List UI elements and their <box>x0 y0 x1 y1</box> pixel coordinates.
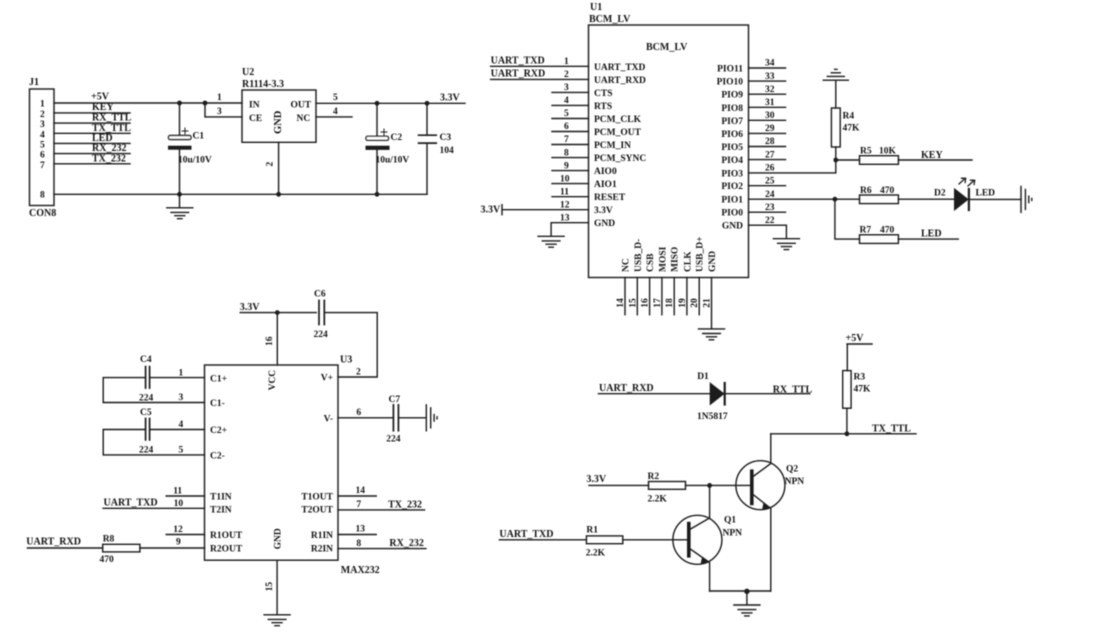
svg-text:PIO0: PIO0 <box>721 209 743 219</box>
resistor R5 10K <box>836 147 899 165</box>
svg-text:GND: GND <box>594 219 615 229</box>
svg-text:C5: C5 <box>140 408 152 418</box>
wire C6 to V+ (U3 pin 2) <box>324 313 377 377</box>
connector J1 CON8 <box>29 77 56 219</box>
svg-text:Q1: Q1 <box>724 516 736 526</box>
svg-text:4: 4 <box>179 420 184 430</box>
resistor R7 470 <box>860 226 899 244</box>
wire +5V to R3 <box>847 344 872 371</box>
svg-text:IN: IN <box>249 101 260 111</box>
svg-text:UART_TXD: UART_TXD <box>594 63 646 73</box>
svg-text:14: 14 <box>356 486 366 496</box>
svg-text:6: 6 <box>40 151 45 161</box>
svg-text:UART_RXD: UART_RXD <box>26 536 81 547</box>
U1 pin 17 stub <box>653 278 663 315</box>
svg-text:34: 34 <box>765 59 775 69</box>
svg-text:TX_232: TX_232 <box>388 500 422 511</box>
U1 pin 23 stub <box>749 203 786 213</box>
svg-text:21: 21 <box>703 298 713 308</box>
svg-text:2.2K: 2.2K <box>586 549 606 559</box>
wire V- to C7 (U3 pin 6) <box>338 417 393 419</box>
svg-text:10K: 10K <box>879 147 897 157</box>
svg-text:7: 7 <box>356 500 361 510</box>
svg-text:3.3V: 3.3V <box>594 206 613 216</box>
svg-text:224: 224 <box>139 445 154 455</box>
wire D2 to ground <box>969 198 1021 200</box>
svg-text:C2+: C2+ <box>210 426 227 436</box>
wire D1 to RX_TTL <box>725 393 810 395</box>
svg-text:R2: R2 <box>648 472 660 482</box>
svg-text:PCM_OUT: PCM_OUT <box>594 128 642 138</box>
svg-text:NPN: NPN <box>785 477 805 487</box>
U1 pin 4 stub <box>552 96 589 106</box>
svg-text:23: 23 <box>765 203 775 213</box>
svg-text:NPN: NPN <box>723 529 743 539</box>
svg-text:V-: V- <box>324 414 333 424</box>
svg-text:+5V: +5V <box>91 92 110 103</box>
svg-text:T1IN: T1IN <box>210 493 232 503</box>
wire ground rail (J1 pin8 to C3) <box>54 193 427 195</box>
capacitor C5 224 with loop to pins 4,5 <box>103 408 204 456</box>
svg-text:UART_RXD: UART_RXD <box>594 76 646 86</box>
svg-text:104: 104 <box>440 146 455 156</box>
svg-text:LED: LED <box>976 188 996 198</box>
svg-text:C3: C3 <box>440 133 452 143</box>
U3 pin 14 T1OUT stub <box>338 486 376 496</box>
wire UART_TXD to R1 <box>499 539 586 541</box>
wire LED (J1 pin5) <box>54 142 130 144</box>
U1 pin 6 stub <box>552 122 589 132</box>
svg-text:3: 3 <box>217 107 222 117</box>
svg-text:PCM_CLK: PCM_CLK <box>594 115 642 125</box>
U1 pin 10 stub <box>552 174 589 184</box>
svg-text:PCM_IN: PCM_IN <box>594 141 631 151</box>
svg-text:4: 4 <box>564 96 569 106</box>
svg-text:R7: R7 <box>860 226 872 236</box>
wire 3.3V out (U2 pin 5) <box>316 102 465 104</box>
svg-text:3: 3 <box>179 393 184 403</box>
wire R8 to R2OUT (U3 pin 9) <box>140 538 205 548</box>
svg-text:3.3V: 3.3V <box>440 93 461 104</box>
svg-text:R2IN: R2IN <box>311 545 333 555</box>
IC U3 MAX232 <box>205 355 380 577</box>
svg-text:8: 8 <box>356 539 361 549</box>
svg-text:10: 10 <box>174 499 184 509</box>
ground (U3 pin 15) <box>264 615 290 626</box>
svg-text:18: 18 <box>665 298 675 308</box>
ground (sideways, C7) <box>426 405 437 431</box>
U1 pin 25 stub <box>749 176 786 186</box>
wire U1 pin 13 GND <box>551 213 588 235</box>
ground (transistor rail) <box>734 605 760 616</box>
svg-text:R3: R3 <box>854 373 866 383</box>
U1 pin 5 stub <box>552 109 589 119</box>
junction rail / C1 <box>177 192 182 197</box>
junction rail/ground <box>744 589 749 594</box>
transistor Q2 NPN <box>736 434 804 591</box>
svg-text:R1IN: R1IN <box>311 531 333 541</box>
U1 pin 33 stub <box>749 72 786 82</box>
U1 pin 11 stub <box>552 187 589 197</box>
svg-text:BCM_LV: BCM_LV <box>589 14 631 25</box>
svg-text:2: 2 <box>40 110 45 120</box>
regulator U2 R1114-3.3 <box>242 67 316 142</box>
U1 pin 30 stub <box>749 111 786 121</box>
wire KEY out <box>898 159 972 161</box>
svg-text:9: 9 <box>564 161 569 171</box>
svg-text:C1: C1 <box>193 132 205 142</box>
svg-text:C1+: C1+ <box>210 374 227 384</box>
wire TX_232 (J1 pin7) <box>54 163 130 165</box>
svg-text:33: 33 <box>765 72 775 82</box>
svg-text:GND: GND <box>273 110 284 134</box>
svg-text:V+: V+ <box>321 374 333 384</box>
svg-text:T2OUT: T2OUT <box>301 506 333 516</box>
svg-text:PIO3: PIO3 <box>721 169 743 179</box>
svg-text:NC: NC <box>622 258 632 272</box>
svg-text:47K: 47K <box>854 385 872 395</box>
junction 3.3V / C2 <box>375 101 380 106</box>
svg-text:PIO4: PIO4 <box>721 156 743 166</box>
svg-text:PIO1: PIO1 <box>721 196 743 206</box>
svg-text:7: 7 <box>40 161 45 171</box>
svg-text:C4: C4 <box>140 355 152 365</box>
ground (U1 pin 21) <box>699 329 725 340</box>
svg-text:PIO10: PIO10 <box>717 78 744 88</box>
resistor R1 2.2K <box>586 526 623 559</box>
svg-text:1: 1 <box>40 100 45 110</box>
resistor R4 47K <box>831 108 860 160</box>
svg-text:C1-: C1- <box>210 399 225 409</box>
svg-text:10u/10V: 10u/10V <box>178 156 212 166</box>
junction node KEY (R4/R5/PIO3) <box>833 158 838 163</box>
svg-text:3: 3 <box>564 83 569 93</box>
svg-text:3: 3 <box>40 120 45 130</box>
svg-text:12: 12 <box>173 525 183 535</box>
wire emitter rail <box>710 590 771 592</box>
U1 pin 31 stub <box>749 98 786 108</box>
wire PIO3 to KEY junction (pin 26) <box>749 160 836 174</box>
svg-text:25: 25 <box>765 176 775 186</box>
svg-text:4: 4 <box>40 130 45 140</box>
svg-text:T2IN: T2IN <box>210 506 232 516</box>
svg-text:R1OUT: R1OUT <box>210 531 243 541</box>
wire TX_TTL (J1 pin4) <box>54 132 130 134</box>
svg-text:TX_TTL: TX_TTL <box>872 423 911 434</box>
capacitor C1 10u/10V <box>168 103 212 194</box>
U1 pin 3 stub <box>552 83 589 93</box>
diode D2 LED <box>934 178 995 210</box>
wire U1 pin 22 GND <box>749 216 787 238</box>
wire CE branch (pin 3) <box>205 103 242 117</box>
junction TX_TTL node <box>845 431 850 436</box>
svg-text:+5V: +5V <box>846 333 865 344</box>
svg-text:KEY: KEY <box>921 150 943 161</box>
svg-text:470: 470 <box>880 226 895 236</box>
svg-text:J1: J1 <box>29 77 39 88</box>
svg-text:15: 15 <box>265 582 275 592</box>
svg-text:Q2: Q2 <box>786 465 798 475</box>
junction R2/Q1 collector <box>707 483 712 488</box>
junction U2 GND / rail <box>276 192 281 197</box>
svg-text:CE: CE <box>249 114 262 124</box>
svg-text:26: 26 <box>765 164 775 174</box>
diode D1 1N5817 <box>697 372 728 422</box>
svg-text:22: 22 <box>765 216 775 226</box>
wire LED out <box>898 238 958 240</box>
svg-text:5: 5 <box>179 446 184 456</box>
svg-text:29: 29 <box>765 124 775 134</box>
ground (inverted, above R4) <box>823 69 848 108</box>
svg-text:3.3V: 3.3V <box>586 474 607 485</box>
svg-text:PIO11: PIO11 <box>717 65 743 75</box>
U1 pin 29 stub <box>749 124 786 134</box>
svg-text:470: 470 <box>100 555 115 565</box>
svg-text:CLK: CLK <box>683 251 693 272</box>
svg-text:1: 1 <box>217 93 222 103</box>
svg-text:BCM_LV: BCM_LV <box>646 42 688 53</box>
junction +5V / C1 <box>177 101 182 106</box>
svg-text:D1: D1 <box>697 372 709 382</box>
junction 3.3V / C3 <box>425 101 430 106</box>
capacitor C2 10u/10V <box>366 103 410 194</box>
junction node LED (R6/R7/PIO1) <box>833 197 838 202</box>
svg-text:47K: 47K <box>843 124 861 134</box>
transistor Q1 NPN <box>673 515 742 591</box>
svg-text:OUT: OUT <box>291 101 312 111</box>
svg-text:R8: R8 <box>103 535 115 545</box>
svg-text:UART_TXD: UART_TXD <box>104 498 158 509</box>
svg-text:1N5817: 1N5817 <box>697 412 728 422</box>
svg-text:8: 8 <box>40 190 45 200</box>
U1 pin 14 stub <box>616 278 626 315</box>
svg-text:470: 470 <box>880 186 895 196</box>
wire R1 to Q1 base <box>623 539 689 541</box>
wire UART_TXD to T2IN (U3 pin 10) <box>103 499 204 509</box>
wire UART_RXD (U1 pin 2) <box>491 78 589 80</box>
U3 pin 12 R1OUT stub <box>166 525 204 535</box>
wire UART_RXD to D1 <box>598 393 710 395</box>
U1 pin 34 stub <box>749 59 786 69</box>
svg-text:USB_D+: USB_D+ <box>696 236 706 272</box>
svg-text:MISO: MISO <box>671 247 681 272</box>
svg-text:14: 14 <box>616 298 626 308</box>
svg-text:C7: C7 <box>389 395 401 405</box>
svg-text:15: 15 <box>628 298 638 308</box>
U1 pin 16 stub <box>641 278 651 315</box>
IC U1 BCM_LV <box>589 2 749 278</box>
capacitor C7 224 <box>386 395 401 445</box>
capacitor C4 224 with loop to pins 1,3 <box>103 355 204 404</box>
wire C7 to ground <box>398 417 426 419</box>
U1 pin 7 stub <box>552 135 589 145</box>
wire PIO1 to LED junction (pin 24) <box>749 190 835 200</box>
ground (C1 rail) <box>167 194 193 218</box>
svg-text:GND: GND <box>708 251 718 272</box>
junction +5V / CE branch <box>203 101 208 106</box>
svg-text:11: 11 <box>560 187 569 197</box>
svg-text:LED: LED <box>921 229 942 240</box>
svg-text:GND: GND <box>722 222 743 232</box>
svg-text:AIO0: AIO0 <box>594 167 617 177</box>
svg-text:5: 5 <box>40 141 45 151</box>
svg-text:PIO7: PIO7 <box>721 117 743 127</box>
svg-text:32: 32 <box>765 85 775 95</box>
svg-text:R4: R4 <box>843 112 855 122</box>
junction rail / C2 <box>375 192 380 197</box>
svg-text:30: 30 <box>765 111 775 121</box>
wire U1 pin 21 GND <box>703 278 713 329</box>
svg-text:PIO9: PIO9 <box>721 91 743 101</box>
svg-text:4: 4 <box>333 107 338 117</box>
svg-text:1: 1 <box>179 368 184 378</box>
U1 pin 18 stub <box>665 278 675 315</box>
wire UART_RXD to R8 <box>27 547 102 549</box>
wire R2 to Q2 base <box>686 484 750 486</box>
svg-text:12: 12 <box>560 200 570 210</box>
svg-text:MAX232: MAX232 <box>341 565 380 576</box>
svg-text:1: 1 <box>564 57 569 67</box>
svg-text:5: 5 <box>333 93 338 103</box>
svg-text:C2: C2 <box>391 133 403 143</box>
svg-text:R5: R5 <box>860 147 872 157</box>
svg-text:20: 20 <box>690 298 700 308</box>
capacitor C3 104 <box>419 103 454 194</box>
wire VCC (U3 pin 16) <box>276 313 278 365</box>
wire U2 GND (pin 2) <box>278 142 280 194</box>
wire rail to ground <box>746 591 748 604</box>
svg-text:MOSI: MOSI <box>658 246 668 272</box>
svg-text:3.3V: 3.3V <box>240 302 261 313</box>
svg-text:13: 13 <box>560 213 570 223</box>
ground (U1 pin 22) <box>773 239 799 250</box>
svg-text:6: 6 <box>356 408 361 418</box>
svg-text:UART_TXD: UART_TXD <box>491 55 545 66</box>
svg-text:RTS: RTS <box>594 102 612 112</box>
junction VCC node <box>275 310 280 315</box>
U1 pin 20 stub <box>690 278 700 315</box>
wire 3.3V to R2 <box>589 484 649 486</box>
svg-text:CTS: CTS <box>594 89 612 99</box>
svg-text:7: 7 <box>564 135 569 145</box>
svg-text:31: 31 <box>765 98 775 108</box>
U1 pin 27 stub <box>749 150 786 160</box>
svg-text:224: 224 <box>139 393 154 403</box>
svg-text:R1114-3.3: R1114-3.3 <box>242 79 284 90</box>
svg-text:UART_RXD: UART_RXD <box>599 383 654 394</box>
svg-text:RESET: RESET <box>594 193 626 203</box>
svg-text:27: 27 <box>765 150 775 160</box>
U1 pin 8 stub <box>552 148 589 158</box>
svg-text:224: 224 <box>386 435 401 445</box>
wire KEY (J1 pin2) <box>54 112 130 114</box>
svg-text:PCM_SYNC: PCM_SYNC <box>594 154 646 164</box>
svg-text:PIO5: PIO5 <box>721 143 743 153</box>
wire NC stub (U2 pin 4) <box>316 116 352 118</box>
svg-text:5: 5 <box>564 109 569 119</box>
svg-text:CON8: CON8 <box>29 208 56 219</box>
wire UART_TXD (U1 pin 1) <box>491 65 589 67</box>
svg-text:24: 24 <box>765 190 775 200</box>
svg-text:R1: R1 <box>586 526 598 536</box>
svg-text:19: 19 <box>678 298 688 308</box>
U1 pin 19 stub <box>678 278 688 315</box>
wire +5V net (J1 pin1 to U2 IN) <box>54 102 242 104</box>
svg-text:U2: U2 <box>242 67 254 78</box>
svg-text:2: 2 <box>564 70 569 80</box>
resistor R2 2.2K <box>648 472 686 505</box>
svg-text:USB_D-: USB_D- <box>634 239 644 272</box>
svg-text:D2: D2 <box>934 188 946 198</box>
resistor R6 470 <box>835 186 899 204</box>
wire T2OUT to TX_232 (U3 pin 7) <box>338 500 425 510</box>
wire R2IN to RX_232 (U3 pin 8) <box>338 539 426 549</box>
U3 pin 11 T1IN stub <box>166 487 204 497</box>
svg-text:11: 11 <box>173 487 182 497</box>
svg-text:TX_232: TX_232 <box>92 153 126 164</box>
svg-text:C2-: C2- <box>210 452 225 462</box>
ground (U1 pin 13) <box>538 236 564 247</box>
svg-text:9: 9 <box>176 538 181 548</box>
wire 3.3V to U1 pin 12 <box>502 200 589 214</box>
wire RX_TTL (J1 pin3) <box>54 122 130 124</box>
wire R6 to D2 <box>898 198 954 200</box>
svg-text:T1OUT: T1OUT <box>301 493 333 503</box>
svg-text:8: 8 <box>564 148 569 158</box>
svg-text:C6: C6 <box>314 290 326 300</box>
svg-text:224: 224 <box>314 330 329 340</box>
svg-text:R6: R6 <box>860 186 872 196</box>
svg-text:PIO8: PIO8 <box>721 104 743 114</box>
svg-text:AIO1: AIO1 <box>594 180 617 190</box>
U1 pin 28 stub <box>749 137 786 147</box>
svg-text:3.3V: 3.3V <box>481 205 502 216</box>
svg-text:PIO6: PIO6 <box>721 130 743 140</box>
U1 pin 15 stub <box>628 278 638 315</box>
svg-text:10: 10 <box>560 174 570 184</box>
svg-text:NC: NC <box>297 114 311 124</box>
svg-text:16: 16 <box>265 336 275 346</box>
svg-text:RX_TTL: RX_TTL <box>773 384 813 395</box>
wire GND (U3 pin 15) <box>276 560 278 614</box>
svg-text:U1: U1 <box>590 2 602 13</box>
svg-text:U3: U3 <box>340 355 352 366</box>
U1 pin 32 stub <box>749 85 786 95</box>
resistor R8 470 <box>100 535 140 566</box>
wire TX_TTL <box>771 433 916 435</box>
svg-text:UART_RXD: UART_RXD <box>491 69 546 80</box>
capacitor C6 224 <box>314 290 329 341</box>
svg-text:10u/10V: 10u/10V <box>376 156 410 166</box>
svg-text:28: 28 <box>765 137 775 147</box>
svg-text:2: 2 <box>266 162 276 167</box>
wire junction to R7 <box>835 199 860 239</box>
resistor R3 47K <box>843 371 871 434</box>
wire 3.3V to VCC/C6 <box>240 312 316 314</box>
svg-text:KEY: KEY <box>92 102 114 113</box>
svg-text:VCC: VCC <box>268 370 278 391</box>
U1 pin 9 stub <box>552 161 589 171</box>
svg-text:PIO2: PIO2 <box>721 182 743 192</box>
svg-text:RX_232: RX_232 <box>389 538 423 549</box>
svg-text:17: 17 <box>653 298 663 308</box>
svg-text:13: 13 <box>356 525 366 535</box>
svg-text:UART_TXD: UART_TXD <box>499 529 553 540</box>
svg-text:GND: GND <box>274 528 284 549</box>
svg-text:6: 6 <box>564 122 569 132</box>
ground (sideways, after D2) <box>1021 186 1032 212</box>
svg-text:R2OUT: R2OUT <box>210 545 243 555</box>
